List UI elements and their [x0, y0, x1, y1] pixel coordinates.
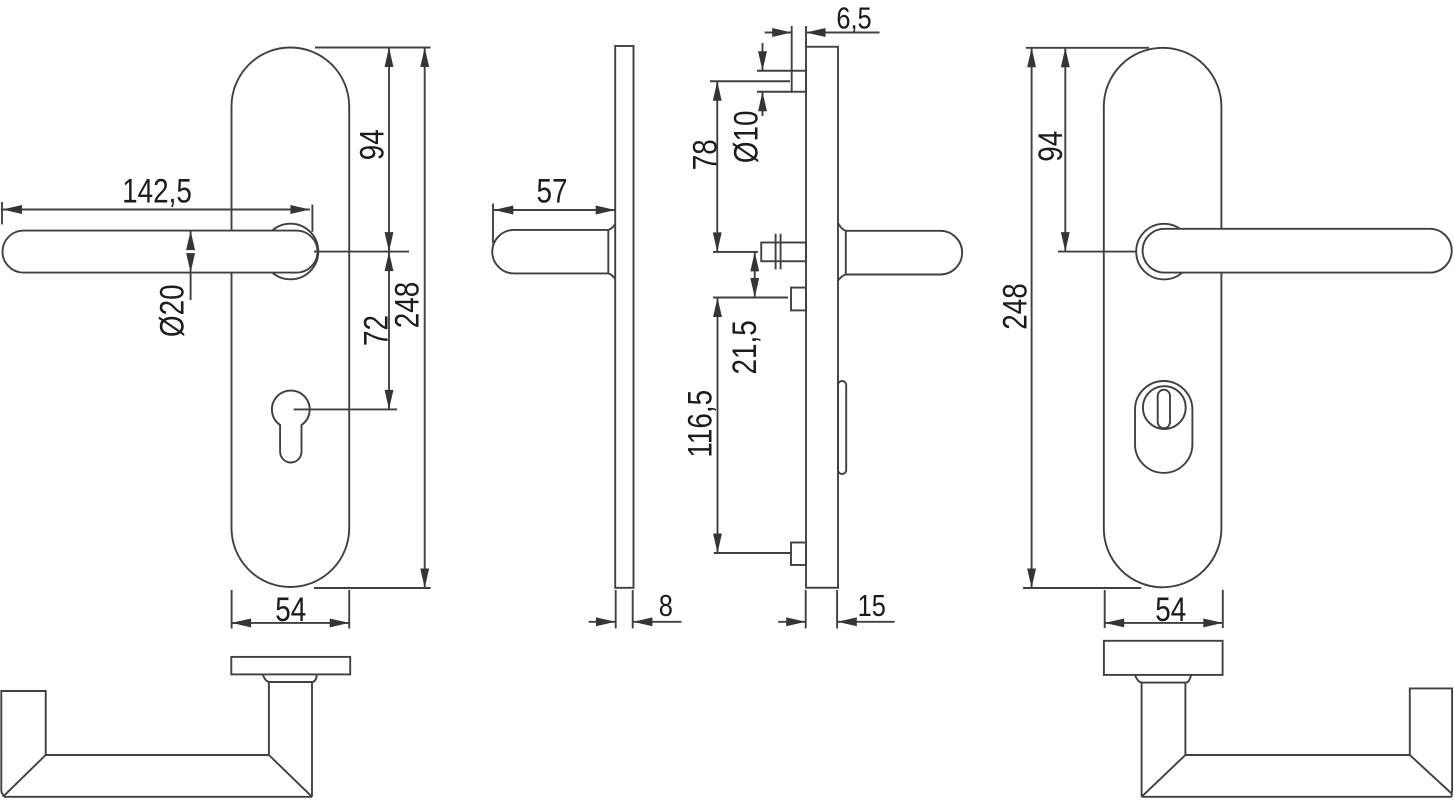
- svg-text:Ø10: Ø10: [727, 111, 765, 164]
- backplate side view3: [806, 47, 838, 588]
- svg-text:54: 54: [275, 590, 306, 628]
- svg-text:94: 94: [1031, 131, 1069, 162]
- svg-text:248: 248: [388, 282, 426, 329]
- top extension line view1: [315, 47, 431, 49]
- dimension 248 view1: [424, 48, 426, 306]
- dimension 54 view1: [231, 590, 233, 629]
- handle collar flare view2: [608, 224, 615, 279]
- svg-text:116,5: 116,5: [681, 390, 719, 458]
- svg-text:8: 8: [659, 589, 673, 624]
- lever handle view1: [3, 231, 318, 273]
- top view neck left edge right: [1141, 683, 1143, 797]
- top view plate right: [1104, 641, 1223, 675]
- svg-text:15: 15: [858, 589, 886, 624]
- dimension 21,5: [754, 252, 756, 272]
- backplate view1: [232, 48, 350, 588]
- svg-text:54: 54: [1155, 590, 1186, 628]
- handle collar flare view3: [838, 223, 846, 281]
- euro profile keyhole view1: [272, 391, 310, 463]
- dimension 15: [805, 590, 807, 628]
- dimension 94 view1: [388, 48, 390, 150]
- dimension 57: [492, 204, 494, 244]
- top view neck left edge: [268, 682, 270, 755]
- cylinder cover bump side view3: [838, 381, 846, 474]
- svg-text:Ø20: Ø20: [153, 284, 191, 337]
- svg-text:248: 248: [996, 283, 1034, 330]
- bottom extension line view1: [314, 587, 431, 589]
- dimension 72 view1: [388, 252, 390, 330]
- top view neck right edge: [311, 682, 313, 797]
- handle collar separator view3: [845, 231, 847, 275]
- top view grip far edge right: [1142, 796, 1452, 798]
- handle grip side view3: [846, 231, 962, 275]
- backplate view4: [1104, 48, 1222, 588]
- top view grip near edge left: [46, 754, 269, 756]
- cylinder circle view4: [1143, 386, 1186, 429]
- svg-text:21,5: 21,5: [725, 320, 763, 374]
- top view elbow diagonal right: [1142, 755, 1186, 797]
- dimension 248 view4: [1031, 48, 1033, 306]
- top view grip far edge left: [4, 796, 312, 798]
- top view grip end cap right: [1410, 688, 1452, 796]
- svg-text:6,5: 6,5: [836, 1, 871, 36]
- top extension line view4: [1026, 47, 1149, 49]
- middle fixing pin view3: [791, 288, 806, 311]
- security cylinder oval view4: [1135, 381, 1192, 473]
- dimension 116,5: [717, 298, 719, 425]
- dimension 94 view4: [1064, 48, 1066, 150]
- dimension 6,5: [806, 32, 880, 34]
- handle centerline view4: [1058, 251, 1137, 253]
- rose circle view4: [1136, 224, 1192, 280]
- top fixing pin view3: [792, 71, 806, 92]
- top view grip near edge right: [1185, 754, 1409, 756]
- svg-text:94: 94: [353, 129, 391, 160]
- spindle bolt view3: [761, 243, 806, 262]
- dimension Ø10 arrows: [762, 43, 764, 71]
- bottom fixing pin view3: [791, 543, 806, 566]
- top view grip end cap left: [1, 691, 45, 797]
- svg-text:142,5: 142,5: [122, 172, 192, 210]
- svg-text:78: 78: [686, 139, 724, 170]
- handle grip side view2: [492, 230, 608, 274]
- dimension 142,5 line: [3, 209, 158, 211]
- lever handle view4: [1143, 229, 1452, 273]
- svg-text:57: 57: [536, 172, 567, 210]
- handle centerline view1: [314, 251, 409, 253]
- dimension 54 view4: [1104, 590, 1106, 628]
- handle collar separator view2: [607, 230, 609, 274]
- dimension 8: [615, 590, 617, 628]
- top view plate left: [231, 657, 350, 675]
- cylinder key slot view4: [1158, 390, 1170, 429]
- bottom extension line view4: [1023, 587, 1141, 589]
- top view collar flare right: [1135, 675, 1191, 683]
- dimension 78: [716, 81, 718, 155]
- spindle washer view3: [775, 234, 777, 270]
- dimension Ø20 arrows: [190, 231, 192, 249]
- rose circle view1: [263, 224, 319, 280]
- extension ticks 142,5: [1, 202, 3, 224]
- keyhole center leader: [294, 408, 397, 410]
- top view elbow diagonal left: [269, 755, 312, 797]
- backplate side view2: [615, 46, 633, 588]
- top view neck right edge right: [1184, 683, 1186, 755]
- top view collar flare left: [263, 674, 317, 682]
